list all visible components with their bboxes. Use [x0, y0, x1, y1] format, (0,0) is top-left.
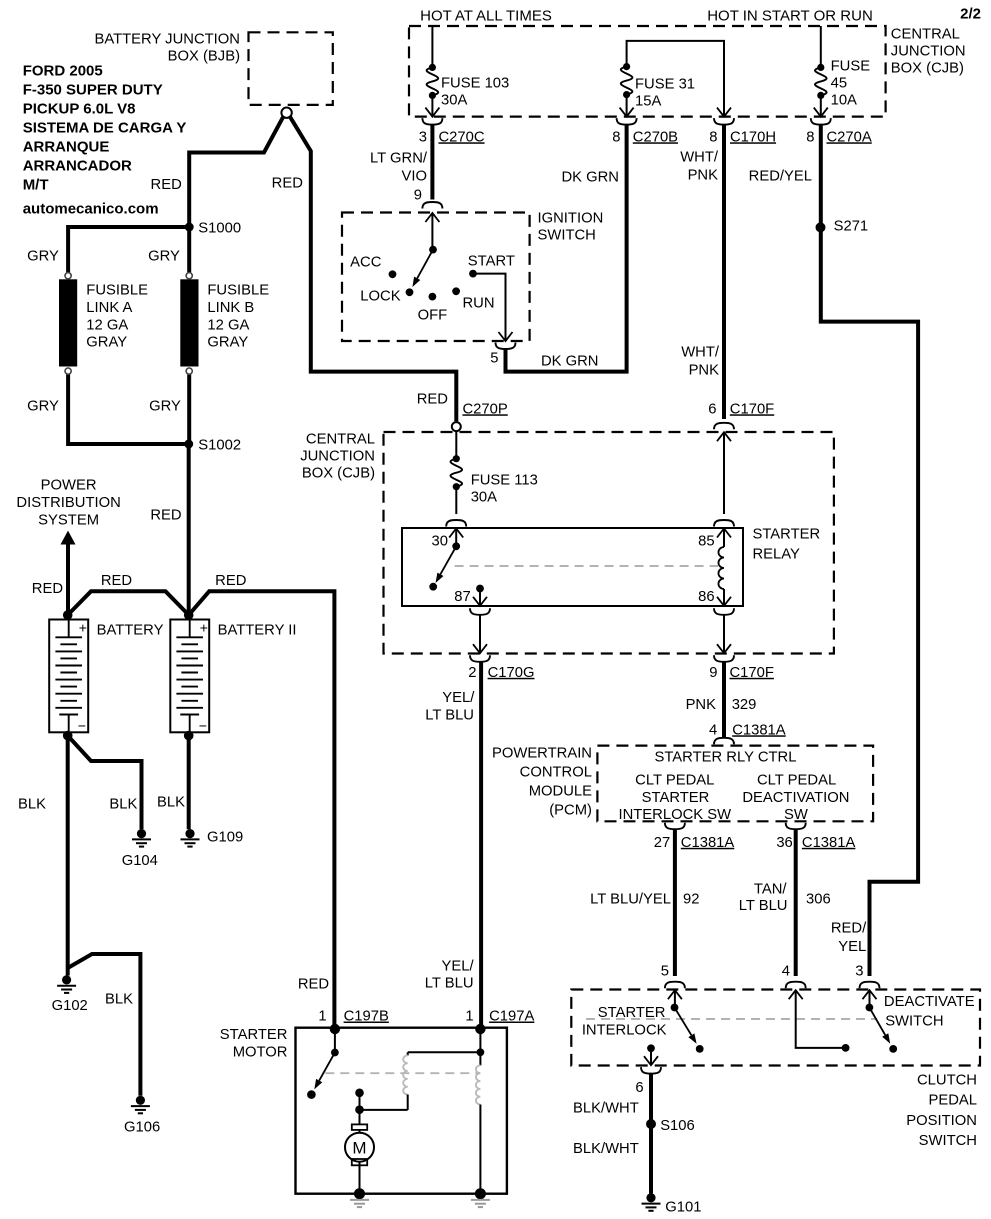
- svg-text:LOCK: LOCK: [360, 288, 400, 304]
- svg-text:C270C: C270C: [439, 129, 485, 145]
- svg-text:POWER: POWER: [41, 477, 97, 493]
- svg-text:MOTOR: MOTOR: [233, 1045, 288, 1061]
- svg-text:C197A: C197A: [489, 1009, 534, 1025]
- svg-text:2: 2: [468, 665, 476, 681]
- svg-text:RED: RED: [272, 176, 303, 192]
- svg-text:YEL: YEL: [838, 939, 866, 955]
- svg-text:C270A: C270A: [827, 129, 872, 145]
- svg-text:G102: G102: [52, 998, 88, 1014]
- svg-text:HOT AT ALL TIMES: HOT AT ALL TIMES: [420, 7, 552, 24]
- svg-text:SW: SW: [784, 807, 808, 823]
- svg-text:G101: G101: [665, 1199, 701, 1215]
- svg-text:DK GRN: DK GRN: [561, 169, 619, 185]
- svg-text:G104: G104: [122, 853, 158, 869]
- svg-text:WHT/: WHT/: [681, 344, 720, 360]
- svg-text:INTERLOCK: INTERLOCK: [582, 1022, 667, 1038]
- svg-text:GRY: GRY: [27, 248, 59, 264]
- svg-text:1: 1: [465, 1009, 473, 1025]
- svg-text:IGNITION: IGNITION: [538, 210, 604, 226]
- svg-text:RELAY: RELAY: [753, 546, 801, 562]
- svg-text:FUSE 103: FUSE 103: [441, 75, 509, 91]
- svg-text:BLK: BLK: [157, 794, 185, 810]
- svg-text:automecanico.com: automecanico.com: [23, 200, 159, 217]
- svg-text:SISTEMA DE CARGA Y: SISTEMA DE CARGA Y: [23, 119, 187, 136]
- svg-text:CENTRAL: CENTRAL: [306, 431, 375, 447]
- svg-text:DISTRIBUTION: DISTRIBUTION: [16, 495, 120, 511]
- svg-text:GRY: GRY: [148, 248, 180, 264]
- svg-text:9: 9: [414, 187, 422, 203]
- svg-text:YEL/: YEL/: [442, 690, 475, 706]
- svg-text:C170G: C170G: [488, 665, 535, 681]
- svg-text:+: +: [79, 620, 87, 636]
- svg-text:VIO: VIO: [402, 168, 428, 184]
- svg-text:6: 6: [635, 1080, 643, 1096]
- svg-text:LINK B: LINK B: [207, 300, 254, 316]
- svg-text:4: 4: [709, 722, 717, 738]
- svg-text:36: 36: [776, 835, 792, 851]
- svg-text:CONTROL: CONTROL: [520, 764, 592, 780]
- svg-text:G106: G106: [124, 1119, 160, 1135]
- svg-text:(PCM): (PCM): [549, 802, 592, 818]
- svg-text:CLT PEDAL: CLT PEDAL: [635, 773, 714, 789]
- svg-text:GRAY: GRAY: [86, 334, 127, 350]
- svg-text:S1000: S1000: [198, 220, 241, 236]
- svg-text:START: START: [468, 253, 515, 269]
- svg-text:BLK: BLK: [105, 991, 133, 1007]
- svg-text:4: 4: [782, 963, 790, 979]
- svg-text:PICKUP 6.0L V8: PICKUP 6.0L V8: [23, 100, 136, 117]
- svg-text:YEL/: YEL/: [442, 959, 475, 975]
- svg-text:86: 86: [698, 589, 714, 605]
- svg-text:C1381A: C1381A: [802, 835, 856, 851]
- svg-text:OFF: OFF: [418, 307, 448, 323]
- svg-text:STARTER: STARTER: [220, 1027, 288, 1043]
- svg-text:POWERTRAIN: POWERTRAIN: [492, 745, 592, 761]
- svg-text:STARTER: STARTER: [753, 526, 821, 542]
- svg-text:RUN: RUN: [463, 295, 495, 311]
- svg-text:ARRANQUE: ARRANQUE: [23, 138, 110, 155]
- svg-text:LT BLU: LT BLU: [739, 898, 788, 914]
- svg-text:RED: RED: [151, 177, 182, 193]
- svg-text:CENTRAL: CENTRAL: [891, 26, 960, 42]
- svg-text:329: 329: [732, 697, 757, 713]
- svg-text:STARTER: STARTER: [642, 790, 710, 806]
- svg-text:5: 5: [490, 350, 498, 366]
- svg-text:BLK: BLK: [109, 796, 137, 812]
- svg-text:BLK/WHT: BLK/WHT: [573, 1141, 639, 1157]
- svg-text:6: 6: [708, 401, 716, 417]
- svg-text:DK GRN: DK GRN: [541, 353, 599, 369]
- svg-text:3: 3: [855, 963, 863, 979]
- svg-text:S1002: S1002: [198, 437, 241, 453]
- svg-text:3: 3: [419, 129, 427, 145]
- svg-text:C270P: C270P: [463, 401, 508, 417]
- svg-text:12 GA: 12 GA: [207, 317, 249, 333]
- svg-text:WHT/: WHT/: [680, 149, 719, 165]
- svg-text:S271: S271: [834, 218, 869, 234]
- svg-text:BOX (BJB): BOX (BJB): [168, 48, 240, 64]
- svg-text:G109: G109: [207, 830, 243, 846]
- svg-text:BLK/WHT: BLK/WHT: [573, 1101, 639, 1117]
- svg-text:M/T: M/T: [23, 176, 49, 193]
- svg-text:LT BLU/YEL: LT BLU/YEL: [590, 891, 671, 907]
- svg-text:LT GRN/: LT GRN/: [370, 150, 428, 166]
- svg-text:CLUTCH: CLUTCH: [917, 1073, 977, 1089]
- svg-text:306: 306: [806, 891, 831, 907]
- svg-text:RED: RED: [150, 507, 181, 523]
- svg-text:S106: S106: [660, 1118, 695, 1134]
- svg-text:C197B: C197B: [344, 1009, 389, 1025]
- svg-text:PNK: PNK: [689, 362, 720, 378]
- svg-text:BOX (CJB): BOX (CJB): [302, 465, 375, 481]
- svg-text:STARTER: STARTER: [598, 1005, 666, 1021]
- svg-text:27: 27: [654, 835, 670, 851]
- svg-text:RED: RED: [298, 976, 329, 992]
- svg-text:SWITCH: SWITCH: [885, 1013, 943, 1029]
- svg-text:8: 8: [612, 129, 620, 145]
- svg-text:ACC: ACC: [350, 254, 382, 270]
- svg-text:FUSIBLE: FUSIBLE: [86, 282, 148, 298]
- svg-text:FORD 2005: FORD 2005: [23, 62, 103, 79]
- svg-text:−: −: [199, 718, 207, 734]
- svg-text:FUSIBLE: FUSIBLE: [207, 282, 269, 298]
- svg-text:FUSE 31: FUSE 31: [635, 76, 695, 92]
- svg-text:15A: 15A: [635, 93, 661, 109]
- svg-text:BATTERY II: BATTERY II: [218, 622, 297, 638]
- svg-text:−: −: [78, 718, 86, 734]
- svg-text:DEACTIVATE: DEACTIVATE: [884, 994, 975, 1010]
- svg-text:LINK A: LINK A: [86, 300, 132, 316]
- svg-text:LT BLU: LT BLU: [425, 976, 474, 992]
- svg-text:CLT PEDAL: CLT PEDAL: [757, 773, 836, 789]
- svg-text:F-350 SUPER DUTY: F-350 SUPER DUTY: [23, 81, 163, 98]
- svg-text:RED/YEL: RED/YEL: [749, 168, 812, 184]
- svg-text:BATTERY JUNCTION: BATTERY JUNCTION: [94, 31, 240, 47]
- svg-text:C1381A: C1381A: [732, 722, 786, 738]
- svg-text:SWITCH: SWITCH: [919, 1133, 977, 1149]
- svg-text:BOX (CJB): BOX (CJB): [891, 60, 964, 76]
- svg-text:GRY: GRY: [27, 398, 59, 414]
- svg-text:SWITCH: SWITCH: [538, 227, 596, 243]
- svg-text:30A: 30A: [471, 489, 497, 505]
- svg-text:HOT IN START OR RUN: HOT IN START OR RUN: [707, 7, 873, 24]
- svg-text:8: 8: [709, 129, 717, 145]
- svg-text:30: 30: [432, 533, 448, 549]
- svg-text:BLK: BLK: [18, 796, 46, 812]
- svg-text:C170F: C170F: [730, 401, 774, 417]
- svg-text:POSITION: POSITION: [906, 1113, 977, 1129]
- svg-text:LT BLU: LT BLU: [425, 708, 474, 724]
- svg-text:C270B: C270B: [633, 129, 678, 145]
- svg-text:M: M: [352, 1138, 366, 1157]
- svg-text:45: 45: [831, 75, 847, 91]
- svg-text:PEDAL: PEDAL: [928, 1093, 977, 1109]
- svg-text:RED: RED: [215, 573, 246, 589]
- svg-text:FUSE: FUSE: [831, 58, 871, 74]
- svg-text:30A: 30A: [441, 92, 467, 108]
- svg-text:RED/: RED/: [831, 920, 867, 936]
- svg-text:GRAY: GRAY: [207, 334, 248, 350]
- svg-text:GRY: GRY: [149, 398, 181, 414]
- svg-text:TAN/: TAN/: [754, 881, 787, 897]
- svg-text:PNK: PNK: [686, 697, 717, 713]
- svg-text:92: 92: [683, 891, 699, 907]
- svg-text:FUSE 113: FUSE 113: [471, 472, 538, 488]
- svg-text:DEACTIVATION: DEACTIVATION: [742, 790, 849, 806]
- svg-text:1: 1: [318, 1009, 326, 1025]
- svg-text:9: 9: [709, 665, 717, 681]
- svg-text:8: 8: [806, 129, 814, 145]
- svg-text:C170F: C170F: [730, 665, 774, 681]
- svg-text:C1381A: C1381A: [681, 835, 735, 851]
- svg-text:MODULE: MODULE: [529, 783, 592, 799]
- svg-text:SYSTEM: SYSTEM: [38, 512, 99, 528]
- svg-text:ARRANCADOR: ARRANCADOR: [23, 157, 132, 174]
- svg-text:BATTERY: BATTERY: [97, 622, 164, 638]
- svg-text:+: +: [200, 620, 208, 636]
- svg-text:87: 87: [454, 589, 470, 605]
- svg-text:C170H: C170H: [730, 129, 776, 145]
- svg-text:STARTER RLY CTRL: STARTER RLY CTRL: [655, 749, 797, 765]
- svg-text:RED: RED: [32, 581, 63, 597]
- svg-text:RED: RED: [101, 573, 132, 589]
- svg-text:JUNCTION: JUNCTION: [891, 43, 966, 59]
- svg-text:5: 5: [661, 963, 669, 979]
- svg-text:RED: RED: [417, 391, 448, 407]
- svg-text:2/2: 2/2: [960, 5, 981, 22]
- svg-text:85: 85: [698, 533, 714, 549]
- svg-text:12 GA: 12 GA: [86, 317, 128, 333]
- svg-text:10A: 10A: [831, 92, 857, 108]
- svg-text:JUNCTION: JUNCTION: [300, 448, 375, 464]
- svg-text:INTERLOCK SW: INTERLOCK SW: [618, 807, 731, 823]
- svg-text:PNK: PNK: [688, 167, 719, 183]
